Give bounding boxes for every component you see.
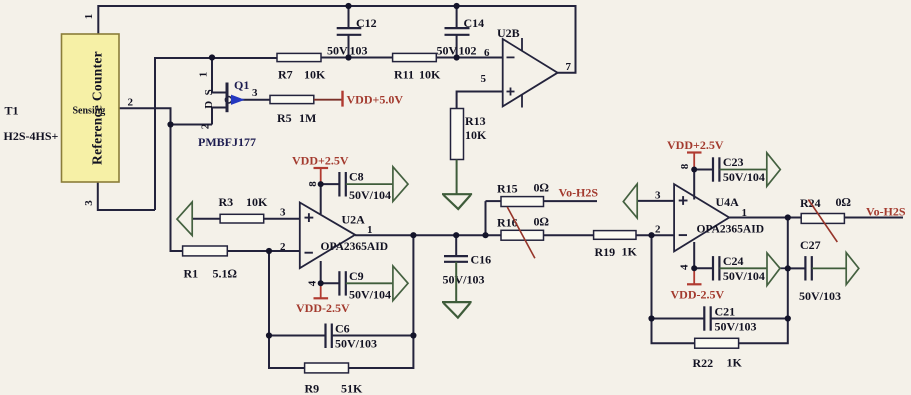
svg-text:3: 3 <box>83 200 95 206</box>
op-amp U4A <box>655 163 764 270</box>
svg-text:5: 5 <box>481 73 487 85</box>
wire U2B pin5 to R13 <box>457 92 503 110</box>
svg-text:1M: 1M <box>299 111 316 125</box>
resistor R3 <box>219 195 269 223</box>
power port arrow right of C9 <box>393 266 408 301</box>
svg-text:R22: R22 <box>693 356 714 370</box>
svg-text:C6: C6 <box>335 322 350 336</box>
svg-text:1: 1 <box>367 224 373 236</box>
capacitor C6 <box>326 322 378 351</box>
wire C14 top lead <box>456 6 458 28</box>
svg-text:C9: C9 <box>349 269 364 283</box>
wire to R15 <box>486 200 502 202</box>
wire U2A top power stub <box>320 184 322 214</box>
svg-text:OPA2365AID: OPA2365AID <box>697 224 765 236</box>
component T1 sensor box <box>62 34 120 182</box>
resistor R11 <box>393 53 441 81</box>
wire T1 pin2 to Q1 drain and R1 <box>119 108 171 124</box>
svg-text:U4A: U4A <box>716 195 740 209</box>
wire Q1 drain lead <box>212 108 227 125</box>
svg-text:1: 1 <box>742 207 748 219</box>
resistor R19 <box>594 231 638 259</box>
power VDD-2.5V at U2A <box>296 283 350 315</box>
svg-text:R3: R3 <box>219 195 234 209</box>
svg-text:50V/103: 50V/103 <box>443 273 485 287</box>
op-amp U2B <box>481 26 572 108</box>
svg-text:R1: R1 <box>184 267 199 281</box>
wire C6 right to feedback vertical <box>331 335 413 337</box>
resistor R9 <box>305 363 364 395</box>
wire C21 left lead <box>652 318 705 320</box>
wire R1 to U2A pin2 <box>227 250 299 252</box>
svg-text:10K: 10K <box>304 68 326 82</box>
power port arrow right of C23 <box>767 153 781 187</box>
resistor R13 <box>451 109 488 160</box>
capacitor C12 <box>327 16 377 58</box>
power port arrow right of C24 <box>767 253 780 286</box>
power VDD+5.0V <box>314 91 404 107</box>
wire R3 to U2A pin3 <box>264 218 300 220</box>
svg-text:C24: C24 <box>723 254 744 268</box>
svg-text:Vo-H2S: Vo-H2S <box>866 205 906 219</box>
capacitor C24 <box>713 254 765 283</box>
svg-text:4: 4 <box>678 264 690 270</box>
wire R24 left lead <box>788 217 801 219</box>
svg-text:S: S <box>203 89 215 95</box>
svg-text:U2B: U2B <box>497 26 520 40</box>
transistor Q1 <box>197 72 258 149</box>
svg-text:10K: 10K <box>419 68 441 82</box>
svg-text:Sensing: Sensing <box>73 106 106 117</box>
svg-text:U2A: U2A <box>342 213 366 227</box>
power VDD+2.5V at U2A <box>292 154 349 185</box>
svg-text:51K: 51K <box>341 382 363 395</box>
svg-text:C8: C8 <box>349 170 364 184</box>
resistor R15 <box>497 181 549 207</box>
capacitor C27 <box>799 238 841 303</box>
svg-text:R11: R11 <box>394 68 414 82</box>
svg-text:103: 103 <box>350 44 368 58</box>
svg-text:8: 8 <box>307 181 319 187</box>
svg-text:0Ω: 0Ω <box>836 195 851 209</box>
svg-text:50V/103: 50V/103 <box>335 337 377 351</box>
resistor R16 <box>497 215 549 241</box>
capacitor C8 <box>339 170 391 203</box>
svg-text:3: 3 <box>655 190 661 202</box>
svg-text:50V/104: 50V/104 <box>723 269 765 283</box>
wire C12 leads <box>348 6 350 28</box>
wire U4A top power stub <box>693 170 695 200</box>
svg-text:50V/104: 50V/104 <box>723 170 765 184</box>
svg-text:R7: R7 <box>278 68 293 82</box>
svg-text:2: 2 <box>655 224 661 236</box>
wire C12 bottom lead <box>348 35 350 58</box>
resistor R22 <box>693 338 743 370</box>
wire C23 to power port <box>719 169 766 171</box>
svg-text:0Ω: 0Ω <box>534 215 549 229</box>
svg-text:C14: C14 <box>464 16 485 30</box>
resistor R1 <box>183 246 237 281</box>
wire U4A pin3 <box>637 200 674 202</box>
power port arrow at U4A pin3 <box>623 184 637 218</box>
power port arrow right of C27 <box>846 253 859 285</box>
power VDD-2.5V at U4A <box>671 268 725 301</box>
svg-text:102: 102 <box>459 44 477 58</box>
capacitor C23 <box>713 155 765 184</box>
svg-text:H2S-4HS+: H2S-4HS+ <box>4 129 59 143</box>
wire C14 bottom lead <box>456 35 458 58</box>
wire R16 to R19 <box>544 234 594 236</box>
svg-text:T1: T1 <box>5 104 19 118</box>
svg-text:7: 7 <box>566 61 572 73</box>
wire C16 top lead <box>455 235 457 256</box>
svg-text:Q1: Q1 <box>234 78 249 92</box>
svg-text:50V/103: 50V/103 <box>715 320 757 334</box>
wire Q1 drain horizontal <box>171 124 213 126</box>
svg-text:OPA2365AID: OPA2365AID <box>321 241 389 253</box>
svg-text:10K: 10K <box>246 195 268 209</box>
op-amp U2A <box>280 181 388 287</box>
svg-text:C12: C12 <box>356 16 377 30</box>
capacitor C16 <box>443 253 492 287</box>
svg-text:2: 2 <box>280 241 286 253</box>
wire C9 to power port <box>346 282 393 284</box>
svg-text:50V/104: 50V/104 <box>349 188 391 202</box>
wire node to R1 <box>171 125 183 252</box>
wire R11 to U2B pin6 <box>436 57 502 59</box>
wire C8 to power port <box>346 183 393 185</box>
wire C27 to power port <box>812 267 846 269</box>
no-stuff slash across R16 <box>507 207 535 258</box>
wire top rail <box>98 6 575 73</box>
ground below C16 <box>442 302 472 318</box>
svg-text:1K: 1K <box>622 245 638 259</box>
ground below R13 <box>442 194 472 209</box>
power port arrow left of R3 <box>177 202 192 236</box>
svg-text:C27: C27 <box>800 238 821 252</box>
wire R13 to ground <box>456 160 458 195</box>
svg-text:VDD+5.0V: VDD+5.0V <box>347 93 404 107</box>
svg-text:6: 6 <box>484 47 490 59</box>
wire C24 left lead <box>694 267 713 269</box>
svg-text:R13: R13 <box>465 114 486 128</box>
wire C6 branch left <box>269 335 326 337</box>
wire C27 left lead <box>788 267 806 269</box>
svg-text:VDD+2.5V: VDD+2.5V <box>667 138 724 152</box>
wire U2A output run <box>355 234 501 236</box>
svg-text:VDD+2.5V: VDD+2.5V <box>292 154 349 168</box>
wire U2A feedback vertical left <box>269 251 305 368</box>
wire right loop vertical <box>739 218 788 344</box>
wire R7 to R11 <box>321 57 393 59</box>
svg-text:PMBFJ177: PMBFJ177 <box>198 135 256 149</box>
wire Q1 gate to R5 <box>242 99 270 101</box>
resistor R7 <box>277 53 326 81</box>
wire R22 left to pin2 vertical <box>652 235 695 343</box>
svg-text:3: 3 <box>252 87 258 99</box>
svg-text:1: 1 <box>83 14 95 20</box>
svg-text:R15: R15 <box>497 182 518 196</box>
wire R15 branch vertical <box>485 201 487 235</box>
wire R9 right to feedback vertical <box>349 235 414 368</box>
svg-text:50V/104: 50V/104 <box>349 288 391 302</box>
svg-text:0Ω: 0Ω <box>534 181 549 195</box>
power VDD+2.5V at U4A <box>667 138 724 170</box>
svg-text:1: 1 <box>197 72 209 78</box>
svg-text:1K: 1K <box>727 356 743 370</box>
svg-text:4: 4 <box>306 280 318 286</box>
capacitor C14 <box>437 16 485 58</box>
svg-text:R9: R9 <box>305 382 320 395</box>
svg-text:VDD-2.5V: VDD-2.5V <box>296 301 350 315</box>
wire U4A output <box>729 217 788 219</box>
wire C23 left lead <box>694 169 713 171</box>
wire C24 to power port and loop <box>719 267 767 269</box>
wire C9 left lead <box>321 282 340 284</box>
wire T1 pin3 <box>98 182 155 210</box>
svg-text:C21: C21 <box>715 305 736 319</box>
power port arrow right of C8 <box>393 167 408 202</box>
svg-text:8: 8 <box>679 163 691 169</box>
wire upper horizontal net <box>155 58 277 210</box>
no-stuff slash across R24 <box>808 200 837 243</box>
svg-text:D: D <box>203 101 215 109</box>
svg-text:2: 2 <box>128 97 134 109</box>
capacitor C21 <box>704 305 756 334</box>
svg-text:C16: C16 <box>471 253 492 267</box>
svg-text:50V: 50V <box>327 44 348 58</box>
svg-text:C23: C23 <box>723 155 744 169</box>
wire R24 to Vo-H2S <box>844 217 903 219</box>
wire arrow to R3 <box>192 218 220 220</box>
svg-text:VDD-2.5V: VDD-2.5V <box>671 288 725 302</box>
wire U2A bottom power stub <box>320 261 322 283</box>
svg-text:R16: R16 <box>497 216 518 230</box>
svg-text:10K: 10K <box>465 128 487 142</box>
wire U4A bottom power stub <box>693 242 695 268</box>
resistor R24 <box>800 195 851 223</box>
svg-text:R19: R19 <box>595 245 616 259</box>
wire R19 to U4A pin2 <box>636 234 674 236</box>
capacitor C9 <box>339 269 391 302</box>
resistor R5 <box>270 95 316 125</box>
svg-text:3: 3 <box>280 207 286 219</box>
wire Q1 source lead <box>212 58 227 93</box>
svg-text:Vo-H2S: Vo-H2S <box>559 186 599 200</box>
svg-text:50V/103: 50V/103 <box>799 289 841 303</box>
svg-text:5.1Ω: 5.1Ω <box>213 267 237 281</box>
svg-text:R5: R5 <box>277 111 292 125</box>
wire R15 to Vo-H2S <box>544 200 598 202</box>
wire C16 to ground <box>455 262 457 302</box>
wire C21 right lead <box>710 318 788 320</box>
wire C8 left lead <box>321 183 340 185</box>
svg-text:2: 2 <box>199 123 211 129</box>
